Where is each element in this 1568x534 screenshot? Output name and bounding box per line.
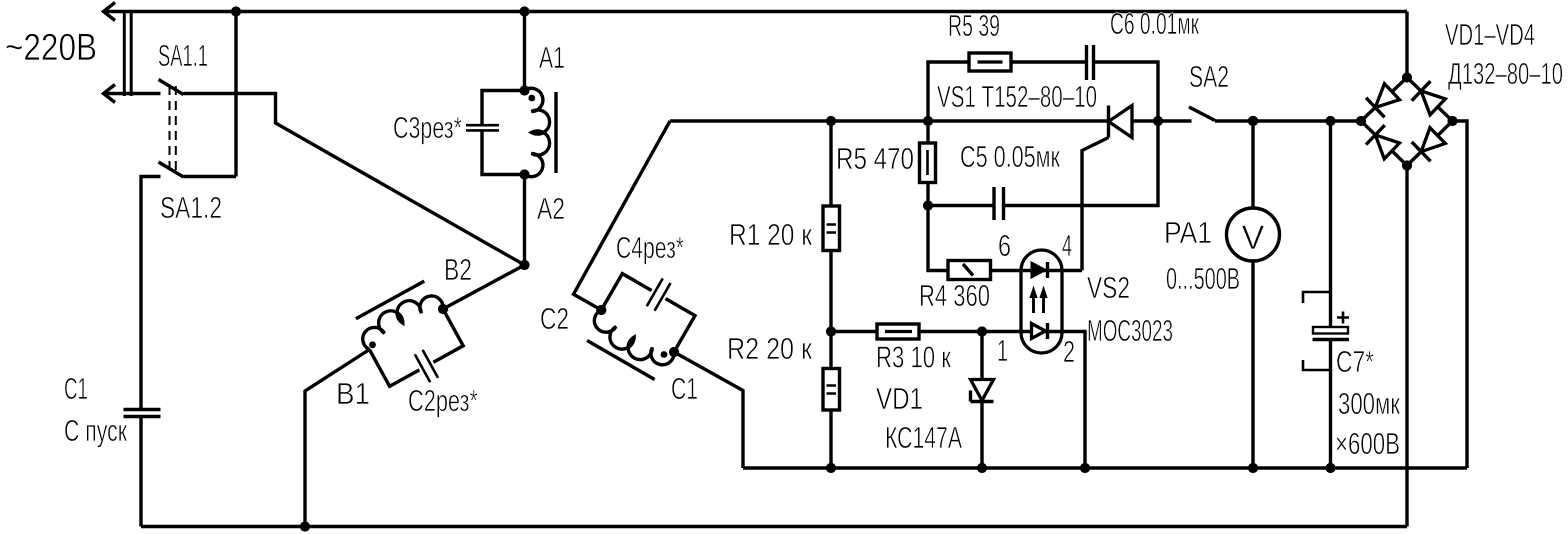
- capacitor C3рез loop: [482, 91, 525, 175]
- svg-text:С2: С2: [540, 302, 569, 336]
- wire R2 to mid bus: [829, 410, 832, 468]
- motor winding B petals: [351, 279, 445, 351]
- svg-text:SA1.1: SA1.1: [158, 39, 208, 73]
- node PA1 main: [1248, 116, 1258, 126]
- svg-text:R5 470: R5 470: [836, 142, 914, 176]
- motor winding C petals: [583, 309, 676, 382]
- switch SA1.2 blade: [159, 162, 184, 177]
- capacitor C2рез loop: [369, 309, 463, 386]
- node R1 R3: [826, 326, 836, 336]
- wire R1 to R2: [829, 251, 832, 369]
- resistor R4: [948, 261, 991, 280]
- arrow mains bottom: [104, 85, 116, 103]
- node R2 bus: [826, 463, 836, 473]
- node B1 bottom bus: [300, 521, 310, 531]
- capacitor C6: [1087, 45, 1094, 80]
- svg-text:B1: B1: [336, 377, 370, 411]
- svg-text:A1: A1: [539, 41, 565, 75]
- wire snubber top: [928, 62, 1158, 206]
- capacitor C5: [994, 187, 1004, 220]
- node B2 coil end: [438, 304, 448, 314]
- diode VD3 bridge BL: [1366, 125, 1401, 160]
- svg-text:MOC3023: MOC3023: [1087, 314, 1173, 348]
- wire bottom bus: [141, 525, 1407, 528]
- resistor R5 470: [920, 143, 936, 183]
- node bridge right: [1447, 116, 1457, 126]
- svg-text:~220В: ~220В: [5, 27, 97, 69]
- switch SA1.1 blade: [159, 80, 184, 95]
- svg-text:R2 20 к: R2 20 к: [727, 332, 813, 366]
- node A1: [519, 85, 529, 95]
- wire SA1.1 to node A2B2: [184, 94, 525, 266]
- node VD1 bus: [977, 463, 987, 473]
- svg-text:A2: A2: [537, 192, 565, 226]
- wire R3 branch: [831, 332, 1085, 469]
- wire C1 to bottom bus: [139, 417, 142, 527]
- svg-text:С1: С1: [64, 372, 88, 406]
- VS2 triac: [1032, 324, 1046, 339]
- winding B polarity dot: [369, 341, 376, 348]
- node bridge bottom: [1402, 160, 1412, 170]
- svg-text:С пуск: С пуск: [64, 414, 127, 448]
- wire SA1.2 right: [184, 175, 237, 178]
- node C7 bus: [1325, 463, 1335, 473]
- svg-text:4: 4: [1062, 229, 1072, 263]
- transformer winding A petals: [525, 88, 550, 176]
- capacitor C2рез plates: [415, 350, 438, 382]
- capacitor C7 plates: [1313, 327, 1348, 334]
- svg-text:VD1: VD1: [876, 382, 923, 416]
- svg-text:R5 39: R5 39: [948, 9, 1000, 43]
- wire SA2 to bridge: [1215, 119, 1361, 122]
- capacitor C4рез plates: [647, 278, 671, 310]
- capacitor C3рез plates: [466, 125, 499, 130]
- svg-text:С4рез*: С4рез*: [616, 231, 684, 265]
- wire C2 from main: [574, 121, 671, 310]
- wire bridge top: [1405, 12, 1408, 78]
- node VD1 top: [977, 326, 987, 336]
- bridge frame: [1361, 78, 1453, 166]
- node snubber main: [923, 116, 933, 126]
- plug X1 pins: [124, 10, 131, 96]
- arrow mains top: [104, 3, 116, 21]
- svg-text:0...500В: 0...500В: [1166, 262, 1240, 296]
- capacitor C4рез loop: [601, 274, 695, 352]
- node C5 R5: [923, 200, 933, 210]
- svg-text:R4 360: R4 360: [919, 279, 990, 313]
- resistor R1: [823, 206, 840, 251]
- node top bus A1: [519, 6, 529, 16]
- svg-text:SA2: SA2: [1189, 60, 1229, 94]
- node pin2 bus: [1080, 463, 1090, 473]
- node C1 coil end: [669, 347, 679, 357]
- wire PA1 top: [1251, 121, 1254, 208]
- wire node to winding B: [443, 265, 525, 309]
- diode VD1 bridge TL: [1366, 82, 1401, 117]
- node bridge top: [1402, 72, 1412, 82]
- wire mains lower lead: [104, 92, 161, 95]
- wire R1 top: [829, 121, 832, 206]
- wire SA1.2 left to C1: [141, 177, 161, 410]
- VS2 LED: [1032, 263, 1046, 278]
- thyristor VS1: [1109, 106, 1133, 138]
- diode VD4 bridge BR: [1412, 126, 1447, 161]
- svg-text:2: 2: [1063, 335, 1075, 369]
- svg-text:300мк: 300мк: [1338, 387, 1400, 421]
- C7 case brackets: [1303, 292, 1331, 370]
- C7 plus sign: [1337, 312, 1349, 324]
- VS2 light arrows: [1034, 296, 1044, 313]
- wire top bus to SA1.2: [234, 12, 237, 177]
- wire R4 branch: [928, 206, 1082, 271]
- node C7 main: [1325, 116, 1335, 126]
- node top bus left: [231, 6, 241, 16]
- svg-text:6: 6: [998, 229, 1011, 263]
- svg-text:С6 0.01мк: С6 0.01мк: [1110, 7, 1199, 41]
- wire VS1 gate: [1082, 138, 1109, 271]
- svg-text:R3 10 к: R3 10 к: [876, 341, 951, 375]
- wire mid bus: [743, 466, 1467, 469]
- wire C7 top: [1329, 121, 1332, 327]
- winding C polarity dot: [661, 351, 668, 358]
- node R1 main: [826, 116, 836, 126]
- wire VD1: [980, 332, 983, 469]
- wire C7 bottom: [1329, 340, 1332, 468]
- transformer core: [554, 92, 557, 173]
- svg-text:V: V: [1242, 219, 1265, 257]
- svg-text:С1: С1: [671, 372, 698, 406]
- wire C1 to mid bus: [674, 352, 743, 468]
- node SA2 right: [1248, 116, 1258, 126]
- wire top bus: [104, 10, 1407, 13]
- svg-text:1: 1: [997, 334, 1008, 368]
- resistor R2: [823, 369, 840, 411]
- resistor R3: [877, 324, 919, 339]
- svg-text:Д132–80–10: Д132–80–10: [1448, 57, 1563, 91]
- svg-text:SA1.2: SA1.2: [160, 191, 222, 225]
- zener VD1: [971, 380, 994, 401]
- node C2 coil end: [596, 305, 606, 315]
- wire A2: [523, 175, 526, 266]
- node bridge left: [1356, 116, 1366, 126]
- svg-text:С7*: С7*: [1336, 345, 1374, 379]
- node PA1 bus: [1248, 463, 1258, 473]
- capacitor C1: [124, 410, 161, 417]
- switch SA2 blade: [1189, 107, 1215, 121]
- optocoupler VS2 body: [1021, 250, 1062, 353]
- svg-text:B2: B2: [444, 253, 472, 287]
- svg-text:КС147А: КС147А: [885, 421, 962, 455]
- svg-text:×600В: ×600В: [1335, 427, 1400, 461]
- winding A polarity dot: [528, 95, 535, 102]
- wire bridge bottom: [1405, 166, 1408, 527]
- node A2B2 junction: [519, 260, 529, 270]
- voltmeter PA1: [1227, 208, 1280, 261]
- svg-text:С2рез*: С2рез*: [408, 384, 478, 418]
- wire B1: [305, 350, 369, 527]
- wire PA1 bottom: [1251, 261, 1254, 468]
- svg-text:VD1–VD4: VD1–VD4: [1445, 18, 1535, 52]
- node A2: [519, 169, 529, 179]
- svg-text:VS2: VS2: [1087, 271, 1130, 305]
- svg-text:С5 0.05мк: С5 0.05мк: [960, 140, 1060, 174]
- svg-text:R1 20 к: R1 20 к: [729, 218, 813, 252]
- svg-text:PA1: PA1: [1164, 216, 1212, 250]
- mechanical link SA1 dashed: [170, 86, 176, 170]
- wire main control: [670, 119, 1192, 122]
- resistor R5 39: [969, 53, 1011, 71]
- svg-text:VS1 Т152–80–10: VS1 Т152–80–10: [937, 80, 1097, 114]
- node VS1 cathode: [1153, 116, 1163, 126]
- svg-text:С3рез*: С3рез*: [393, 111, 462, 145]
- wire bridge right: [1453, 121, 1468, 468]
- diode VD2 bridge TR: [1412, 81, 1447, 116]
- wire A1: [523, 12, 526, 91]
